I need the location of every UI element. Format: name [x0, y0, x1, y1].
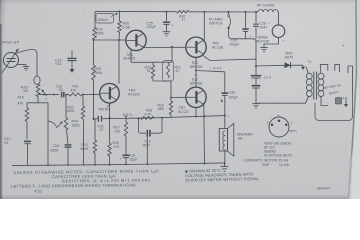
ground (supply column) [252, 104, 260, 108]
wire TR7 base stub [171, 96, 186, 98]
wire C29 row to x256 [243, 39, 256, 59]
resistor R22 label [96, 28, 105, 36]
wire TR6 collector riser [203, 12, 205, 40]
wire R33 top row [131, 61, 172, 63]
wire C21 to rail [27, 144, 29, 166]
wire T1 secondary top hook [320, 65, 328, 74]
node (119,40) [118, 39, 120, 41]
label RF CHOKE [257, 4, 275, 8]
node (162,117.8) [161, 117, 163, 119]
wire C26 to node J [224, 96, 226, 116]
wire R21 return [83, 119, 85, 165]
wire node to R33 row [171, 47, 173, 62]
resistor R24 label [81, 143, 90, 151]
wire pot wiper drop [47, 103, 49, 165]
wire TR5 emitter [130, 50, 132, 62]
wire bottom ground rail [12, 163, 225, 166]
wire divider to rail node [93, 94, 95, 119]
wire R16 to C21 [26, 122, 28, 140]
wire mains hook right [348, 66, 353, 94]
wire T1 primary top lead [306, 67, 309, 74]
potentiometer R23 [36, 84, 47, 97]
connector lead view [267, 114, 297, 137]
switch S1 label [209, 18, 223, 26]
node (109.5,117.5) [109, 117, 111, 119]
node (109.5,164.9) [109, 164, 111, 166]
lead view caption [264, 142, 292, 158]
resistor R24 [93, 119, 96, 153]
node (68,165) [67, 164, 69, 166]
node (166.5,11.7) [166, 11, 168, 13]
transformer T1 core [314, 72, 317, 100]
label -5.9V (bridge) [209, 66, 223, 70]
arrow polarity C26 [221, 99, 223, 102]
capacitor C25 label [146, 22, 156, 30]
node (44,94.6) [43, 94, 45, 96]
node (204.5,116.2) [204, 115, 206, 117]
wire choke to motor [277, 12, 280, 25]
resistor R26 [118, 12, 122, 41]
capacitor C19 label [55, 59, 62, 67]
transistor TR4 label [128, 89, 140, 97]
capacitor C20 label [98, 124, 104, 132]
scan specks [59, 12, 344, 46]
capacitor C26 [221, 93, 228, 95]
resistor R26 label [123, 22, 131, 30]
node (196,75) [195, 74, 197, 76]
transistor TR6 label [212, 42, 223, 50]
resistor R33 label [145, 66, 151, 74]
capacitor C21 label [4, 137, 11, 145]
capacitor C12 loop [139, 118, 163, 137]
node (66,94.6) [65, 94, 67, 96]
node (171,97.5) [170, 97, 172, 99]
node J [224, 114, 230, 118]
motor label [257, 36, 270, 44]
node (54,94.6) [53, 94, 55, 96]
capacitor C28 [253, 12, 259, 39]
node F label [46, 97, 48, 101]
drawing number [317, 186, 331, 190]
transformer T1 secondary [318, 73, 324, 96]
thermistor RT1 label [175, 66, 181, 74]
node (224.8,163.3) [224, 162, 226, 164]
transistor TR5 [126, 30, 146, 50]
node (48,165) [47, 164, 49, 166]
capacitor C31 label [130, 154, 138, 162]
resistor R25 label [113, 141, 121, 149]
capacitor C18 [62, 92, 64, 98]
wire RV4 to C2A [67, 130, 69, 144]
speaker SP1 [219, 123, 234, 156]
node (256,66) [255, 65, 257, 67]
capacitor C29 label [230, 39, 240, 47]
node (93.5,40) [93, 39, 95, 41]
wire TR5 base [94, 39, 127, 41]
transistor TR7 [186, 87, 206, 107]
resistor R28 [141, 117, 155, 120]
wire pickup gnd tap [17, 64, 27, 66]
resistor R27 [124, 116, 127, 136]
resistor R20 [69, 93, 82, 96]
node (119.5,11.5) [119, 11, 121, 13]
wire speaker to rail [224, 151, 226, 163]
wire mains hook upper [335, 65, 340, 72]
notes block left [11, 168, 160, 193]
wire RV4 arrow tail [48, 121, 57, 127]
wire pot to signal row [27, 97, 48, 104]
resistor R29 [169, 98, 172, 118]
wire supply to diode [256, 64, 285, 67]
resistor R21 [81, 95, 84, 120]
resistor R25 [108, 118, 111, 165]
wire bridge to C26 column [196, 71, 225, 93]
resistor R33 [151, 62, 154, 81]
capacitor C25 [163, 12, 174, 32]
wire pickup top loop [14, 50, 40, 86]
capacitor C2A label [50, 144, 60, 152]
page right edge [347, 0, 360, 199]
node (256,12) [255, 11, 257, 13]
node (172,46.8) [171, 46, 173, 48]
capacitor C2A [65, 145, 72, 147]
notes block right [185, 167, 260, 183]
resistor R35 [92, 65, 96, 80]
node (245.5,11.9) [245, 11, 247, 13]
wire mid drop x147 [146, 137, 148, 165]
node (126,164.2) [125, 163, 127, 165]
wire T1 primary bottom return [259, 96, 309, 103]
ground (motor) [260, 48, 268, 52]
wire R24 to rail [94, 153, 96, 165]
capacitor C27 [252, 86, 261, 104]
wire motor to ground [264, 38, 279, 48]
label currents [244, 159, 290, 168]
node (196,116.5) [195, 116, 197, 118]
resistor R30 (on rail) [177, 10, 190, 22]
wire TR6-TR7 link [195, 57, 197, 87]
capacitor C19 [67, 50, 76, 69]
wire drop x204 [203, 105, 206, 164]
capacitor C12 label [142, 139, 151, 147]
diode MR1 label [285, 52, 294, 60]
transistor TR6 [186, 37, 206, 57]
arrow termination (earth) [343, 96, 349, 107]
wire switch down [229, 29, 243, 39]
label -5.9V (TR4) [122, 113, 133, 117]
node (126,116.4) [125, 116, 127, 118]
switch S1 [228, 12, 231, 29]
transistor TR7 label [178, 106, 189, 114]
node (83,94.5) [82, 94, 84, 96]
label R32 BRIDGE [190, 78, 203, 86]
capacitor C24 (-12V) [251, 59, 261, 85]
wire TR5 collector to TR6 base [144, 46, 187, 48]
wire RT1 row to TR7 base [170, 81, 172, 98]
resistor R29 label [158, 104, 164, 112]
inductor RF choke [258, 10, 278, 13]
pickup PU1 [2, 49, 19, 74]
resistor R16 [25, 103, 29, 122]
thermistor RT1 [163, 61, 174, 82]
capacitor C28 label [259, 22, 268, 30]
ground (C25) [163, 32, 171, 36]
resistor R28 label [145, 108, 153, 116]
capacitor C26 label [228, 91, 238, 100]
resistor R35 label [94, 67, 103, 75]
resistor R27 label [114, 126, 121, 134]
node (228.5,11.9) [228, 11, 230, 13]
node (95,164.8) [94, 164, 96, 166]
transistor TR5 label [123, 53, 135, 61]
node (204.3,11.85) [203, 11, 205, 13]
label 625mV [96, 13, 118, 23]
resistor R21 label [67, 106, 76, 114]
capacitor C31 [120, 136, 130, 164]
ground (pickup) [23, 65, 30, 71]
label R31 BRIDGE [190, 61, 203, 69]
wire TR4 collector riser [118, 40, 120, 84]
wire emitter rail [94, 116, 226, 119]
resistor R16 label [18, 96, 25, 106]
wire top supply rail [95, 10, 258, 13]
node (93.5,118.9) [93, 118, 95, 120]
page left edge shadow [1, 24, 2, 199]
capacitor C18 label [56, 84, 63, 92]
node (138.5,118.6) [138, 118, 140, 120]
node (204.5,163.6) [204, 163, 206, 165]
capacitor C21 [24, 141, 31, 143]
transformer T1 primary [306, 73, 312, 96]
wire R33 bottom row [153, 80, 171, 82]
wire node J to speaker [224, 116, 226, 129]
wire C2A to rail [67, 148, 69, 165]
resistor R22 [93, 27, 97, 40]
arrow termination (diode wire) [301, 65, 305, 70]
pickup PU1 label [3, 41, 20, 45]
ground (end of bottom rail) [221, 163, 229, 172]
potentiometer RV4 [57, 118, 68, 131]
speaker label [237, 133, 254, 141]
capacitor C20 (series) [98, 116, 101, 122]
wire R35 to signal row [93, 80, 95, 94]
wire row to RV4 [65, 95, 67, 118]
wire TR7 emitter [195, 108, 197, 117]
diode MR1 [285, 62, 304, 68]
potentiometer R23 label [21, 86, 28, 94]
wire signal row [38, 93, 100, 95]
motor M1 [268, 22, 285, 43]
potentiometer RV4 label [72, 120, 81, 128]
mains plug [336, 98, 342, 105]
wire T1 secondary bottom hook [321, 96, 328, 105]
wire TR6 collector to supply column [203, 56, 256, 61]
node (93.5,94.4) [93, 94, 95, 96]
label mains [323, 83, 343, 96]
mains cable loop [315, 94, 353, 121]
arrow termination (C19) [70, 69, 75, 73]
transistor TR4 [100, 83, 120, 103]
wire rail left drop [94, 11, 96, 65]
capacitor C29 [242, 12, 251, 39]
node (196,70.5) [195, 70, 197, 72]
wire TR4 emitter [109, 103, 111, 118]
transformer T1 label [308, 60, 312, 64]
resistor R20 label [71, 85, 79, 93]
node (147.3,164.3) [146, 163, 148, 165]
label 550mV [99, 104, 111, 112]
label -12V [263, 76, 272, 80]
